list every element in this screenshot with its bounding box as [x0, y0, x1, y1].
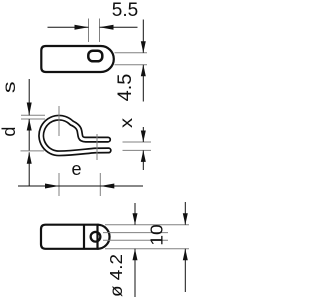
dim right line and arrows [183, 202, 188, 292]
dim 5.5 line and arrows [48, 25, 138, 30]
bottom view tab [98, 225, 110, 249]
dim x extension lines [123, 142, 152, 150]
side view: hole centerline through tails [96, 134, 98, 160]
dim 5.5 extension ticks [89, 19, 100, 43]
svg-text:s: s [0, 81, 19, 93]
side view: loop centerline (vertical thin) [58, 106, 60, 136]
side view: P-clip metal strip [41, 118, 108, 154]
dim d bottom extension line [21, 150, 45, 152]
bottom view hole [91, 232, 101, 242]
svg-text:5.5: 5.5 [112, 0, 138, 21]
svg-text:4.5: 4.5 [114, 73, 135, 101]
dim 10 line and arrows [133, 203, 138, 297]
dim x line and arrows [141, 127, 146, 170]
dim e line and arrows [18, 184, 143, 189]
dim s ticks [21, 115, 45, 119]
dim 4.5 line and arrows [141, 20, 146, 102]
dim 4.5 extension lines [115, 53, 148, 65]
svg-text:10: 10 [146, 224, 166, 246]
svg-text:d: d [0, 127, 19, 137]
svg-text:x: x [117, 117, 137, 128]
bottom view outline [41, 225, 110, 249]
dim e ticks [59, 173, 100, 196]
svg-text:ø 4.2: ø 4.2 [105, 254, 125, 297]
bottom dims extension lines [103, 225, 189, 249]
top view: clamp outline [41, 46, 114, 72]
svg-text:e: e [71, 159, 81, 179]
top view hole (slot) [88, 51, 102, 62]
dim s/d vertical line with arrows [27, 79, 32, 186]
